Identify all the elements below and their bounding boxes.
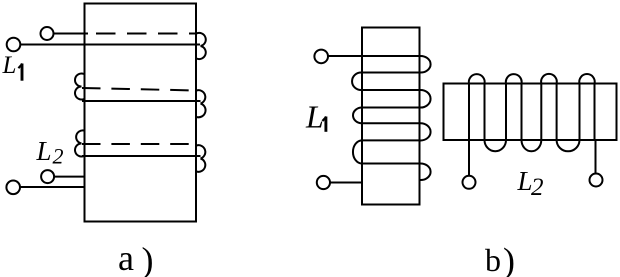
svg-text:L: L [2, 52, 17, 79]
svg-text:): ) [142, 240, 154, 277]
svg-text:b: b [485, 242, 501, 277]
svg-text:2: 2 [53, 144, 64, 169]
svg-text:a: a [118, 238, 134, 277]
svg-text:L: L [36, 136, 52, 166]
svg-text:L: L [305, 99, 324, 135]
svg-text:2: 2 [531, 174, 544, 201]
svg-text:): ) [503, 241, 515, 277]
